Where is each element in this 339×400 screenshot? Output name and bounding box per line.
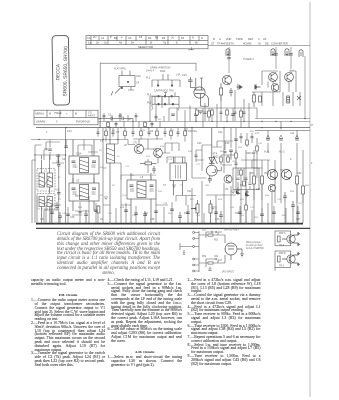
- svg-text:SELECTOR: SELECTOR: [138, 45, 153, 49]
- dial lamp LP4: [299, 50, 303, 57]
- bottom left tuning cluster: [37, 196, 98, 223]
- pick-up annotation text: [246, 242, 264, 250]
- tone pot VR2: [209, 200, 212, 223]
- svg-text:T5: T5: [180, 185, 183, 187]
- svg-text:AMP A: AMP A: [279, 232, 286, 235]
- svg-text:DE: DE: [265, 42, 269, 46]
- resistor R41 vertical: [253, 176, 256, 184]
- if transformer T4: [127, 173, 156, 223]
- VT4 label: [213, 153, 220, 159]
- electrolytic C41: [289, 54, 293, 55]
- cap C10: [48, 149, 52, 151]
- svg-text:C4: C4: [56, 189, 60, 192]
- aerial panel strip S2 text: [35, 111, 95, 124]
- svg-text:4A/75: 4A/75: [88, 114, 95, 118]
- svg-text:N: N: [192, 35, 194, 39]
- header note row 2: [0, 0, 1, 1]
- VT1 bias resistor R21: [220, 83, 223, 101]
- svg-text:C47: C47: [108, 213, 113, 215]
- right section hang wires: [254, 121, 303, 203]
- svg-text:TR 5: TR 5: [279, 265, 285, 267]
- electrolytic C40: [274, 54, 278, 55]
- V1 grid cap C13a: [188, 77, 195, 87]
- svg-text:R29: R29: [218, 199, 223, 201]
- svg-text:R38: R38: [265, 195, 270, 197]
- dial lamp LP2: [271, 49, 275, 56]
- switch detail SW-A labels: [114, 68, 141, 85]
- svg-text:Wiring change: Wiring change: [246, 242, 261, 244]
- svg-text:2ND: 2ND: [226, 37, 231, 41]
- svg-text:W21: W21: [214, 156, 220, 159]
- svg-text:TR 4: TR 4: [279, 245, 285, 247]
- svg-text:C31: C31: [187, 190, 192, 193]
- cap C2b: [57, 188, 60, 199]
- output transistor A: [278, 232, 300, 245]
- svg-text:R49: R49: [120, 207, 125, 209]
- svg-text:L3: L3: [58, 199, 61, 201]
- svg-text:C23: C23: [197, 142, 202, 145]
- cap C25: [229, 150, 233, 160]
- right lower wires to rail: [241, 160, 303, 223]
- svg-text:R24: R24: [238, 147, 243, 149]
- svg-text:C53: C53: [196, 215, 201, 217]
- svg-text:4: 4: [290, 158, 292, 161]
- svg-text:CA: CA: [87, 36, 91, 40]
- T1 trimmers: [72, 161, 97, 163]
- output channel A box: [275, 231, 291, 271]
- switch detail SW-C labels: [147, 90, 174, 105]
- svg-text:C21: C21: [125, 166, 130, 168]
- svg-text:6f: 6f: [150, 41, 152, 45]
- model label text DECCA SR600, SR650, SR700: [55, 46, 69, 97]
- label U2: [116, 130, 154, 134]
- resistor R43 vertical: [296, 176, 299, 184]
- C5 C6 labels: [108, 113, 123, 116]
- output transistor B labels: [279, 252, 287, 267]
- svg-text:(PU INPUT): (PU INPUT): [222, 272, 234, 274]
- wire drop to mixer: [276, 47, 291, 69]
- svg-text:C54: C54: [240, 215, 245, 217]
- lower mid resistors: [194, 155, 229, 162]
- coupling caps C5 C6 from aerial strip: [98, 117, 133, 128]
- resistor R18: [208, 111, 211, 117]
- bus junction dots: [132, 118, 305, 122]
- af transistor VT9: [282, 170, 292, 180]
- svg-text:4GM/E: 4GM/E: [243, 42, 252, 46]
- svg-text:C45: C45: [70, 216, 75, 219]
- svg-text:C48: C48: [150, 218, 155, 221]
- if amp transistor VT6: [154, 149, 163, 158]
- svg-text:DRIVER 4: DRIVER 4: [246, 152, 258, 155]
- chassis rail lower: [36, 227, 310, 229]
- svg-text:R40: R40: [297, 172, 302, 175]
- agc line parts: [46, 141, 233, 152]
- svg-text:LW/MW: LW/MW: [36, 119, 46, 123]
- svg-text:C35: C35: [230, 207, 235, 209]
- switch detail SW-A box: [111, 71, 135, 96]
- driver transformer T5: [170, 157, 187, 196]
- svg-text:R: R: [213, 37, 215, 41]
- mw tuned circuit box L3/L4 (dashed): [37, 194, 55, 210]
- svg-text:AU 2: AU 2: [279, 151, 285, 154]
- V1 stage lower parts: [190, 90, 244, 122]
- svg-text:FLAT RP6L: FLAT RP6L: [114, 68, 127, 71]
- svg-text:ST: ST: [211, 42, 215, 46]
- af transistor VT8: [268, 170, 278, 180]
- resistor R26: [259, 96, 262, 102]
- L4 coil: [44, 197, 53, 224]
- svg-text:4: 4: [311, 162, 313, 165]
- lower mid extra parts: [196, 150, 235, 165]
- svg-text:C57: C57: [296, 218, 301, 221]
- svg-text:L8: L8: [124, 144, 127, 147]
- fm tuner right cluster wires: [252, 71, 300, 106]
- dial lamp LP3: [285, 49, 289, 56]
- svg-text:C62: C62: [214, 256, 219, 258]
- svg-text:R32: R32: [240, 199, 245, 201]
- svg-text:M: M: [75, 112, 77, 116]
- svg-text:for pick-up input: for pick-up input: [246, 244, 263, 247]
- svg-text:D4: D4: [148, 36, 152, 40]
- svg-text:R48: R48: [78, 207, 83, 209]
- diode D2: [255, 84, 261, 90]
- page fold line: [309, 2, 311, 397]
- svg-text:VR: VR: [225, 188, 229, 191]
- agc bus line: [255, 118, 310, 120]
- svg-text:C42: C42: [298, 203, 303, 205]
- svg-text:R51: R51: [214, 240, 219, 242]
- upper band stubs left: [100, 113, 164, 128]
- L3 coil: [39, 197, 45, 224]
- svg-text:L 8: L 8: [140, 176, 144, 179]
- svg-text:C5: C5: [108, 113, 112, 116]
- diode D1: [237, 84, 243, 90]
- svg-text:T2: T2: [163, 184, 166, 187]
- svg-text:M: M: [49, 112, 51, 116]
- svg-text:AU 1: AU 1: [264, 151, 270, 154]
- cap C50: [266, 135, 270, 140]
- svg-text:IN: IN: [258, 42, 261, 46]
- label C34: [46, 130, 72, 134]
- svg-text:R52: R52: [202, 256, 207, 258]
- decoupling cap C16: [171, 114, 175, 116]
- svg-text:C19: C19: [170, 130, 175, 132]
- dial lamp LP1: [226, 49, 230, 56]
- network caps: [236, 178, 251, 186]
- right column parts x232-262: [236, 133, 257, 160]
- wire drop from selector to VT2: [228, 47, 230, 73]
- svg-text:C27: C27: [196, 164, 201, 166]
- capacitor C13 on drop wire: [227, 57, 231, 58]
- svg-text:47: 47: [311, 124, 314, 127]
- osc coil L12: [287, 96, 290, 103]
- svg-text:C15: C15: [141, 130, 146, 132]
- left junction dots: [34, 154, 66, 155]
- detector valve VT4: [206, 128, 221, 183]
- svg-text:R39: R39: [290, 191, 295, 193]
- cap C11: [56, 155, 60, 157]
- svg-text:G: G: [201, 36, 203, 40]
- svg-text:E5: E5: [162, 36, 166, 40]
- tuner unit enclosure box: [100, 47, 196, 127]
- cap C51: [279, 135, 283, 140]
- svg-text:RATING: RATING: [188, 130, 197, 133]
- V1 label: [182, 74, 203, 80]
- cap C22: [152, 166, 155, 174]
- svg-text:PL3: PL3: [146, 77, 151, 80]
- resistor R44 vertical: [302, 186, 305, 194]
- hf bus line: [98, 120, 310, 122]
- L1 coil: [39, 160, 45, 188]
- svg-text:R45: R45: [305, 185, 310, 187]
- bottom cluster dots: [55, 222, 247, 224]
- resistor R25: [253, 92, 256, 107]
- label AU1: [264, 151, 292, 161]
- T2 trimmers: [72, 188, 97, 190]
- svg-text:4: 4: [258, 37, 260, 41]
- bottom row small caps between rails: [58, 210, 223, 223]
- resistor R42 vertical: [261, 176, 264, 184]
- svg-text:K4: K4: [139, 35, 143, 39]
- svg-text:P: P: [110, 35, 112, 39]
- svg-text:C46: C46: [62, 213, 67, 215]
- svg-text:C4: C4: [136, 82, 140, 85]
- model label box: [52, 35, 70, 105]
- svg-text:VD: VD: [280, 169, 284, 172]
- cap C56: [291, 201, 295, 211]
- svg-text:C24: C24: [122, 195, 127, 197]
- junction dots mid band: [38, 127, 281, 140]
- svg-text:FM DIPOLE: FM DIPOLE: [76, 119, 90, 123]
- cap C52: [295, 135, 299, 140]
- svg-text:AMP B: AMP B: [279, 252, 287, 255]
- svg-text:L1: L1: [58, 177, 61, 179]
- pick-up detail: input bus: [193, 231, 199, 272]
- main ht rail: [36, 127, 310, 129]
- ground pins on bus: [104, 129, 235, 216]
- svg-text:R33: R33: [250, 172, 255, 175]
- svg-text:R14: R14: [160, 146, 165, 148]
- svg-text:75ΩμF: 75ΩμF: [54, 111, 62, 115]
- cap C55: [283, 192, 287, 202]
- switch detail SW-B labels: [146, 67, 181, 80]
- svg-text:L17: L17: [255, 132, 260, 135]
- svg-text:VD: VD: [264, 172, 268, 175]
- output channel B box: [275, 251, 291, 267]
- driver feedback network box: [233, 168, 259, 190]
- output transistor A labels: [279, 232, 286, 247]
- svg-text:R2: R2: [99, 150, 103, 152]
- bottom cluster resistor R5: [97, 206, 100, 213]
- svg-text:RGR: RGR: [160, 70, 166, 73]
- cap C4 stub: [64, 140, 67, 148]
- left labels: [44, 160, 60, 191]
- svg-text:CARTRIDGE TRG: CARTRIDGE TRG: [154, 90, 174, 93]
- svg-text:R53: R53: [254, 217, 259, 219]
- agc caps: [44, 149, 226, 153]
- left band extra wires: [44, 140, 92, 164]
- svg-text:VT1: VT1: [133, 142, 138, 145]
- svg-text:AF: AF: [263, 37, 267, 41]
- if amp transistor VT5: [134, 144, 143, 153]
- V1 cathode resistor R20: [196, 110, 246, 115]
- svg-text:C32: C32: [258, 143, 263, 145]
- svg-text:R12: R12: [146, 156, 151, 158]
- left feeder line: [31, 139, 128, 141]
- resistor R19: [240, 111, 243, 117]
- transistor VT1: [222, 75, 231, 84]
- if transformer T2: [69, 178, 99, 211]
- aerial tuned circuit box L1/L2 (dashed): [37, 169, 55, 192]
- pick-up feed wires from main circuit: [180, 243, 194, 254]
- upper band resistors left: [102, 116, 157, 127]
- svg-text:C9: C9: [76, 180, 80, 183]
- svg-text:U2: U2: [150, 130, 154, 133]
- pick-up valve V2: [225, 243, 244, 260]
- mixer transistor VT2: [269, 73, 278, 82]
- diode D4: [245, 190, 248, 197]
- svg-text:L9: L9: [200, 77, 203, 80]
- aerial panel strip S2: [34, 110, 98, 125]
- switch table strip S1 text: [87, 35, 203, 49]
- svg-text:L19: L19: [290, 132, 295, 135]
- svg-text:VT2: VT2: [153, 148, 158, 151]
- band below rail small caps: [96, 131, 186, 136]
- trimmer C30: [297, 96, 301, 100]
- fm range label: [146, 69, 155, 72]
- svg-text:1: 1: [46, 131, 48, 134]
- extra caps on drops: [50, 209, 300, 216]
- diode D3: [236, 187, 239, 195]
- label driver: [246, 70, 294, 155]
- svg-text:TP.4M/3DETA: TP.4M/3DETA: [217, 42, 234, 46]
- svg-text:SR600, SR650, SR700: SR600, SR650, SR700: [62, 46, 69, 97]
- mid right wires: [192, 128, 262, 223]
- svg-text:C8: C8: [62, 158, 66, 161]
- svg-text:C23: C23: [168, 159, 173, 161]
- L2 coil: [44, 164, 53, 197]
- secondary rail right: [255, 129, 310, 131]
- svg-text:A1: A1: [101, 36, 105, 40]
- mixer coil T3 vertical: [107, 128, 115, 223]
- valve V1 fm rf amp: [194, 78, 209, 114]
- svg-text:P5: P5: [155, 35, 159, 39]
- svg-text:TUNER 4: TUNER 4: [243, 58, 254, 61]
- cap C2a: [57, 160, 60, 171]
- output transistor VT7: [224, 175, 232, 183]
- svg-text:DECCA: DECCA: [55, 63, 60, 80]
- pick-up detail: top network R,C: [199, 231, 225, 244]
- pick-up detail: bottom network: [199, 255, 225, 270]
- svg-text:PL5: PL5: [147, 102, 152, 105]
- svg-text:C25: C25: [225, 142, 230, 145]
- svg-text:SR6700 ONLY: SR6700 ONLY: [224, 230, 239, 232]
- svg-text:R13: R13: [152, 175, 157, 177]
- tuner label: [243, 58, 254, 61]
- labels scattered lower: [40, 124, 314, 221]
- cap C26: [234, 139, 238, 141]
- svg-text:C3: C3: [128, 36, 132, 40]
- svg-text:AERIAL: AERIAL: [35, 112, 45, 116]
- mid cluster wires: [103, 128, 185, 223]
- decoupling cap C18: [231, 114, 235, 116]
- oscillator transistor VT3: [285, 73, 294, 82]
- svg-text:VR1: VR1: [205, 185, 210, 187]
- switch detail SW-B (gram variation): [152, 74, 180, 87]
- resistor R11: [140, 162, 157, 165]
- driver transistor VT10: [268, 184, 275, 191]
- svg-text:C6: C6: [119, 113, 123, 116]
- svg-text:R7: R7: [112, 185, 116, 187]
- svg-text:2U: 2U: [93, 35, 96, 39]
- band below rail: stubs with parts: [98, 128, 185, 142]
- volume pot VR1: [191, 200, 199, 223]
- mid band extra drops: [52, 202, 298, 223]
- decoupling cap C17: [194, 114, 198, 116]
- svg-text:R9: R9: [158, 119, 162, 121]
- output transistor B: [278, 252, 300, 265]
- T4 trimmers: [130, 185, 154, 187]
- left vertical wires: [35, 128, 66, 223]
- svg-text:A: A: [219, 37, 221, 41]
- chassis rail upper: [36, 223, 303, 225]
- right column resistors: [234, 137, 258, 211]
- if transformer T1: [69, 140, 99, 184]
- svg-text:L4A: L4A: [176, 74, 181, 77]
- svg-text:C12: C12: [97, 119, 102, 121]
- svg-text:C13: C13: [182, 74, 187, 77]
- svg-text:DET: DET: [248, 37, 254, 41]
- switch detail SW-C (cartridge): [152, 92, 180, 111]
- svg-text:L6: L6: [117, 156, 120, 158]
- svg-text:TAPE: TAPE: [236, 37, 243, 41]
- middle horizontal links: [32, 160, 196, 223]
- svg-text:C4A: C4A: [136, 75, 141, 78]
- extra speckle labels: [47, 119, 310, 219]
- tuner decoupling wires: [150, 96, 257, 128]
- svg-text:C61: C61: [202, 230, 207, 232]
- header underline: [208, 45, 310, 47]
- caption text: [57, 233, 160, 277]
- svg-text:circuit of SR6700.: circuit of SR6700.: [246, 247, 264, 250]
- switch table strip S1: [86, 36, 208, 49]
- wire drop right edge: [304, 56, 306, 118]
- bottom left extra parts: [44, 202, 82, 223]
- svg-text:R27: R27: [190, 199, 195, 201]
- svg-text:R15: R15: [158, 191, 163, 193]
- svg-text:B2: B2: [114, 36, 118, 40]
- bottom left extra caps: [55, 202, 81, 213]
- svg-text:C34: C34: [67, 130, 72, 133]
- header note rows right of strip: [211, 37, 288, 46]
- svg-text:14••5 4: 14••5 4: [146, 69, 155, 72]
- svg-text:CONVERTER: CONVERTER: [271, 42, 288, 46]
- svg-text:C 9A: C 9A: [76, 152, 82, 155]
- VT1 emitter cap: [229, 88, 233, 96]
- svg-text:R6: R6: [128, 119, 132, 121]
- svg-text:A 4: A 4: [290, 70, 294, 73]
- pick-up labels: [202, 230, 239, 274]
- svg-text:C24: C24: [218, 131, 223, 134]
- buffer transistor VT3a: [271, 84, 279, 92]
